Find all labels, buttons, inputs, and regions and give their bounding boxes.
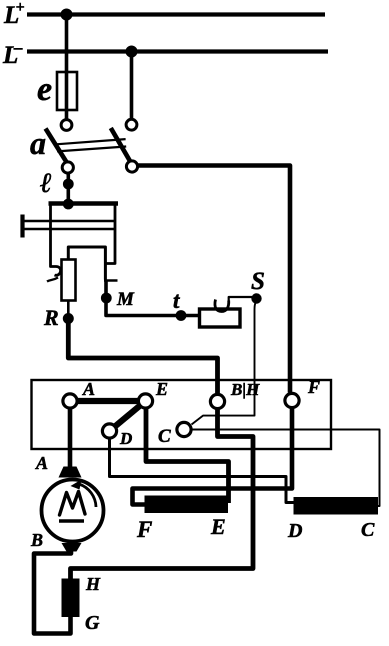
wire F terminal to coil F end: [133, 405, 293, 505]
motor top terminal block: [59, 467, 82, 478]
svg-text:D: D: [287, 520, 302, 542]
svg-text:t: t: [173, 288, 180, 313]
svg-text:A: A: [82, 379, 95, 399]
thermal relay heater box: [200, 309, 241, 327]
switch a right blade: [111, 128, 132, 165]
node l dot: [63, 179, 74, 190]
terminal D: [102, 424, 116, 438]
svg-text:D: D: [119, 429, 132, 448]
node M dot: [101, 293, 112, 304]
svg-text:E: E: [155, 379, 168, 399]
motor M1 body: [42, 480, 104, 542]
terminal strip box: [32, 380, 332, 449]
wire resistor to node R: [67, 301, 70, 315]
svg-text:B: B: [30, 530, 43, 550]
switch a linkage bar: [56, 139, 126, 151]
wire B|H terminal to resistor H: [71, 406, 254, 580]
node R dot: [63, 313, 74, 324]
contactor left finger: [51, 204, 61, 276]
wire motor B to resistor G: [34, 547, 71, 634]
terminal A: [63, 394, 77, 408]
wire R to terminal B|H: [68, 319, 217, 394]
switch a lower-left pivot: [62, 162, 73, 173]
shunt coil D-C: [294, 497, 379, 515]
svg-text:C: C: [158, 426, 171, 447]
motor M letter: [60, 492, 86, 516]
switch a lower-right pivot: [126, 161, 137, 172]
starting resistor (in controller): [62, 260, 76, 301]
bridge bar A-E: [70, 398, 146, 404]
wire switch a to F terminal: [138, 166, 291, 393]
svg-text:C: C: [361, 519, 375, 541]
contactor handle: [20, 215, 24, 238]
svg-text:M: M: [116, 289, 135, 310]
wire L+ to switch through fuse: [65, 15, 69, 121]
contactor armature shaft: [24, 221, 116, 229]
svg-text:G: G: [85, 612, 100, 634]
node t dot: [176, 310, 187, 321]
svg-text:S: S: [251, 268, 265, 295]
svg-text:F: F: [136, 517, 152, 542]
wire A terminal to motor: [68, 405, 73, 468]
wire C terminal to coil C end (thin): [192, 430, 380, 507]
svg-text:e: e: [37, 71, 52, 108]
switch a upper-left contact: [61, 120, 72, 131]
junction dot on L-: [126, 46, 138, 58]
fuse e: [57, 72, 77, 110]
motor B terminal block: [62, 543, 82, 552]
terminal F: [285, 393, 299, 407]
svg-text:A: A: [35, 453, 48, 473]
terminal E: [138, 394, 152, 408]
svg-text:–: –: [13, 38, 23, 57]
svg-text:a: a: [30, 125, 46, 161]
wire L+ bus: [27, 12, 325, 16]
switch a upper-right contact: [126, 119, 137, 130]
wire D terminal to coil D end: [110, 436, 296, 503]
node L- label: [2, 38, 23, 69]
svg-text:R: R: [43, 305, 59, 330]
svg-text:F: F: [307, 377, 320, 397]
svg-text:E: E: [210, 514, 226, 539]
motor M underline: [59, 519, 84, 522]
svg-text:ℓ: ℓ: [39, 168, 52, 199]
node L+ label: [3, 0, 25, 29]
terminal C: [177, 422, 191, 436]
brake resistor H-G: [62, 579, 80, 618]
wire switch to node l and contactor: [67, 173, 71, 205]
svg-text:+: +: [16, 0, 25, 16]
wire L- to switch: [130, 52, 134, 121]
contactor left fixed contact tick: [47, 278, 58, 282]
terminal B|H: [210, 394, 224, 408]
svg-text:H: H: [85, 574, 101, 594]
contactor right fixed contact tick: [104, 279, 118, 282]
wire thermal contact to S: [229, 297, 252, 301]
node S dot: [251, 293, 261, 303]
wire L- bus: [27, 49, 328, 53]
bridge bar E-D: [110, 401, 146, 431]
wire E terminal to coil E end: [146, 405, 229, 503]
junction dot on L+: [61, 9, 73, 21]
contactor inner U wire: [68, 247, 105, 280]
junction dot at contactor top: [63, 199, 74, 210]
switch a left blade: [46, 129, 69, 165]
contactor top bar: [49, 201, 119, 206]
wire contact to node M and t: [106, 281, 200, 316]
series field coil F-E: [145, 496, 229, 514]
thermal contact hook: [215, 300, 229, 312]
motor rotation arrow: [79, 484, 96, 507]
wire S to terminal C (thin): [192, 300, 257, 425]
svg-text:B|H: B|H: [230, 380, 260, 399]
contactor right finger with jog: [105, 204, 115, 264]
